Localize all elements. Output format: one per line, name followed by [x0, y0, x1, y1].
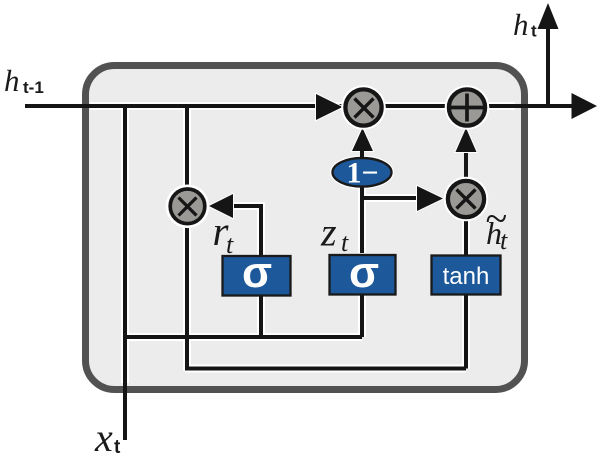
svg-text:h: h: [4, 63, 20, 98]
wire: arrowhead up into multiply-mid: [352, 128, 373, 151]
wire: h_t vertical line up: [546, 27, 550, 106]
multiply-1 operator (reset gate product): [166, 185, 210, 229]
wire: sigma-r input stub: [259, 294, 263, 337]
wire: arrowhead into multiply-2: [417, 186, 443, 211]
wire casings (white halo inside box): [90, 104, 515, 383]
wire: output arrowhead right: [572, 93, 598, 119]
label z_t: [320, 210, 349, 258]
svg-text:σ: σ: [349, 248, 379, 297]
sigma gate z: [330, 248, 396, 297]
plus operator: [445, 85, 490, 130]
svg-text:1−: 1−: [346, 157, 378, 190]
wire: bottom bus to gates: [123, 335, 362, 339]
label r_t: [213, 208, 235, 259]
wire: multiply-2 output up to plus: [464, 153, 468, 180]
wire: z branch right to multiply-2: [362, 196, 418, 200]
svg-text:t: t: [226, 230, 234, 259]
wire: z_t gate output up to 1-minus: [360, 186, 364, 253]
label h_t top: [513, 7, 537, 42]
label h_{t-1}: [4, 63, 44, 98]
wire: stub ellipse bottom to z line: [360, 187, 364, 193]
svg-text:h: h: [513, 7, 529, 42]
wire: 1-minus up to multiply-mid: [360, 150, 364, 158]
label x_t bottom: [94, 415, 121, 458]
wire: stub ellipse top to arrow: [360, 149, 364, 159]
wire: sigma-z input stub: [360, 294, 364, 337]
wire: arrowhead into multiply-mid on main line: [316, 94, 343, 120]
wire: arrowhead up into plus: [456, 128, 477, 152]
wire: r_t gate output to multiply-1: [231, 206, 261, 256]
wire: tanh output up to multiply-2: [464, 218, 468, 256]
wire: r_t arrowhead into multiply-1: [209, 194, 233, 218]
svg-text:t: t: [114, 437, 121, 458]
svg-text:t: t: [341, 228, 349, 257]
wire: tanh input stub: [464, 295, 468, 369]
multiply-mid operator (z * h): [341, 85, 386, 130]
wire: h_t arrowhead up: [538, 3, 559, 29]
wire: x_t vertical input line: [123, 104, 127, 440]
svg-text:t: t: [500, 226, 508, 255]
svg-text:x: x: [94, 415, 113, 458]
svg-text:σ: σ: [242, 248, 272, 297]
wire: h_{t-1} main horizontal line: [25, 104, 572, 108]
wire: lower bus to tanh: [185, 367, 466, 371]
multiply-2 operator (candidate product): [444, 177, 489, 222]
wire: h_{t-1} branch down through multiply-1: [185, 104, 189, 371]
svg-text:t: t: [531, 22, 537, 41]
svg-text:tanh: tanh: [443, 263, 490, 290]
1-minus node: [330, 156, 394, 190]
svg-text:t-1: t-1: [23, 78, 44, 97]
label h-tilde_t: [485, 196, 508, 255]
tanh gate: [432, 256, 501, 295]
sigma gate r: [223, 248, 291, 297]
GRU cell body box: [86, 66, 525, 390]
svg-text:z: z: [320, 210, 337, 255]
